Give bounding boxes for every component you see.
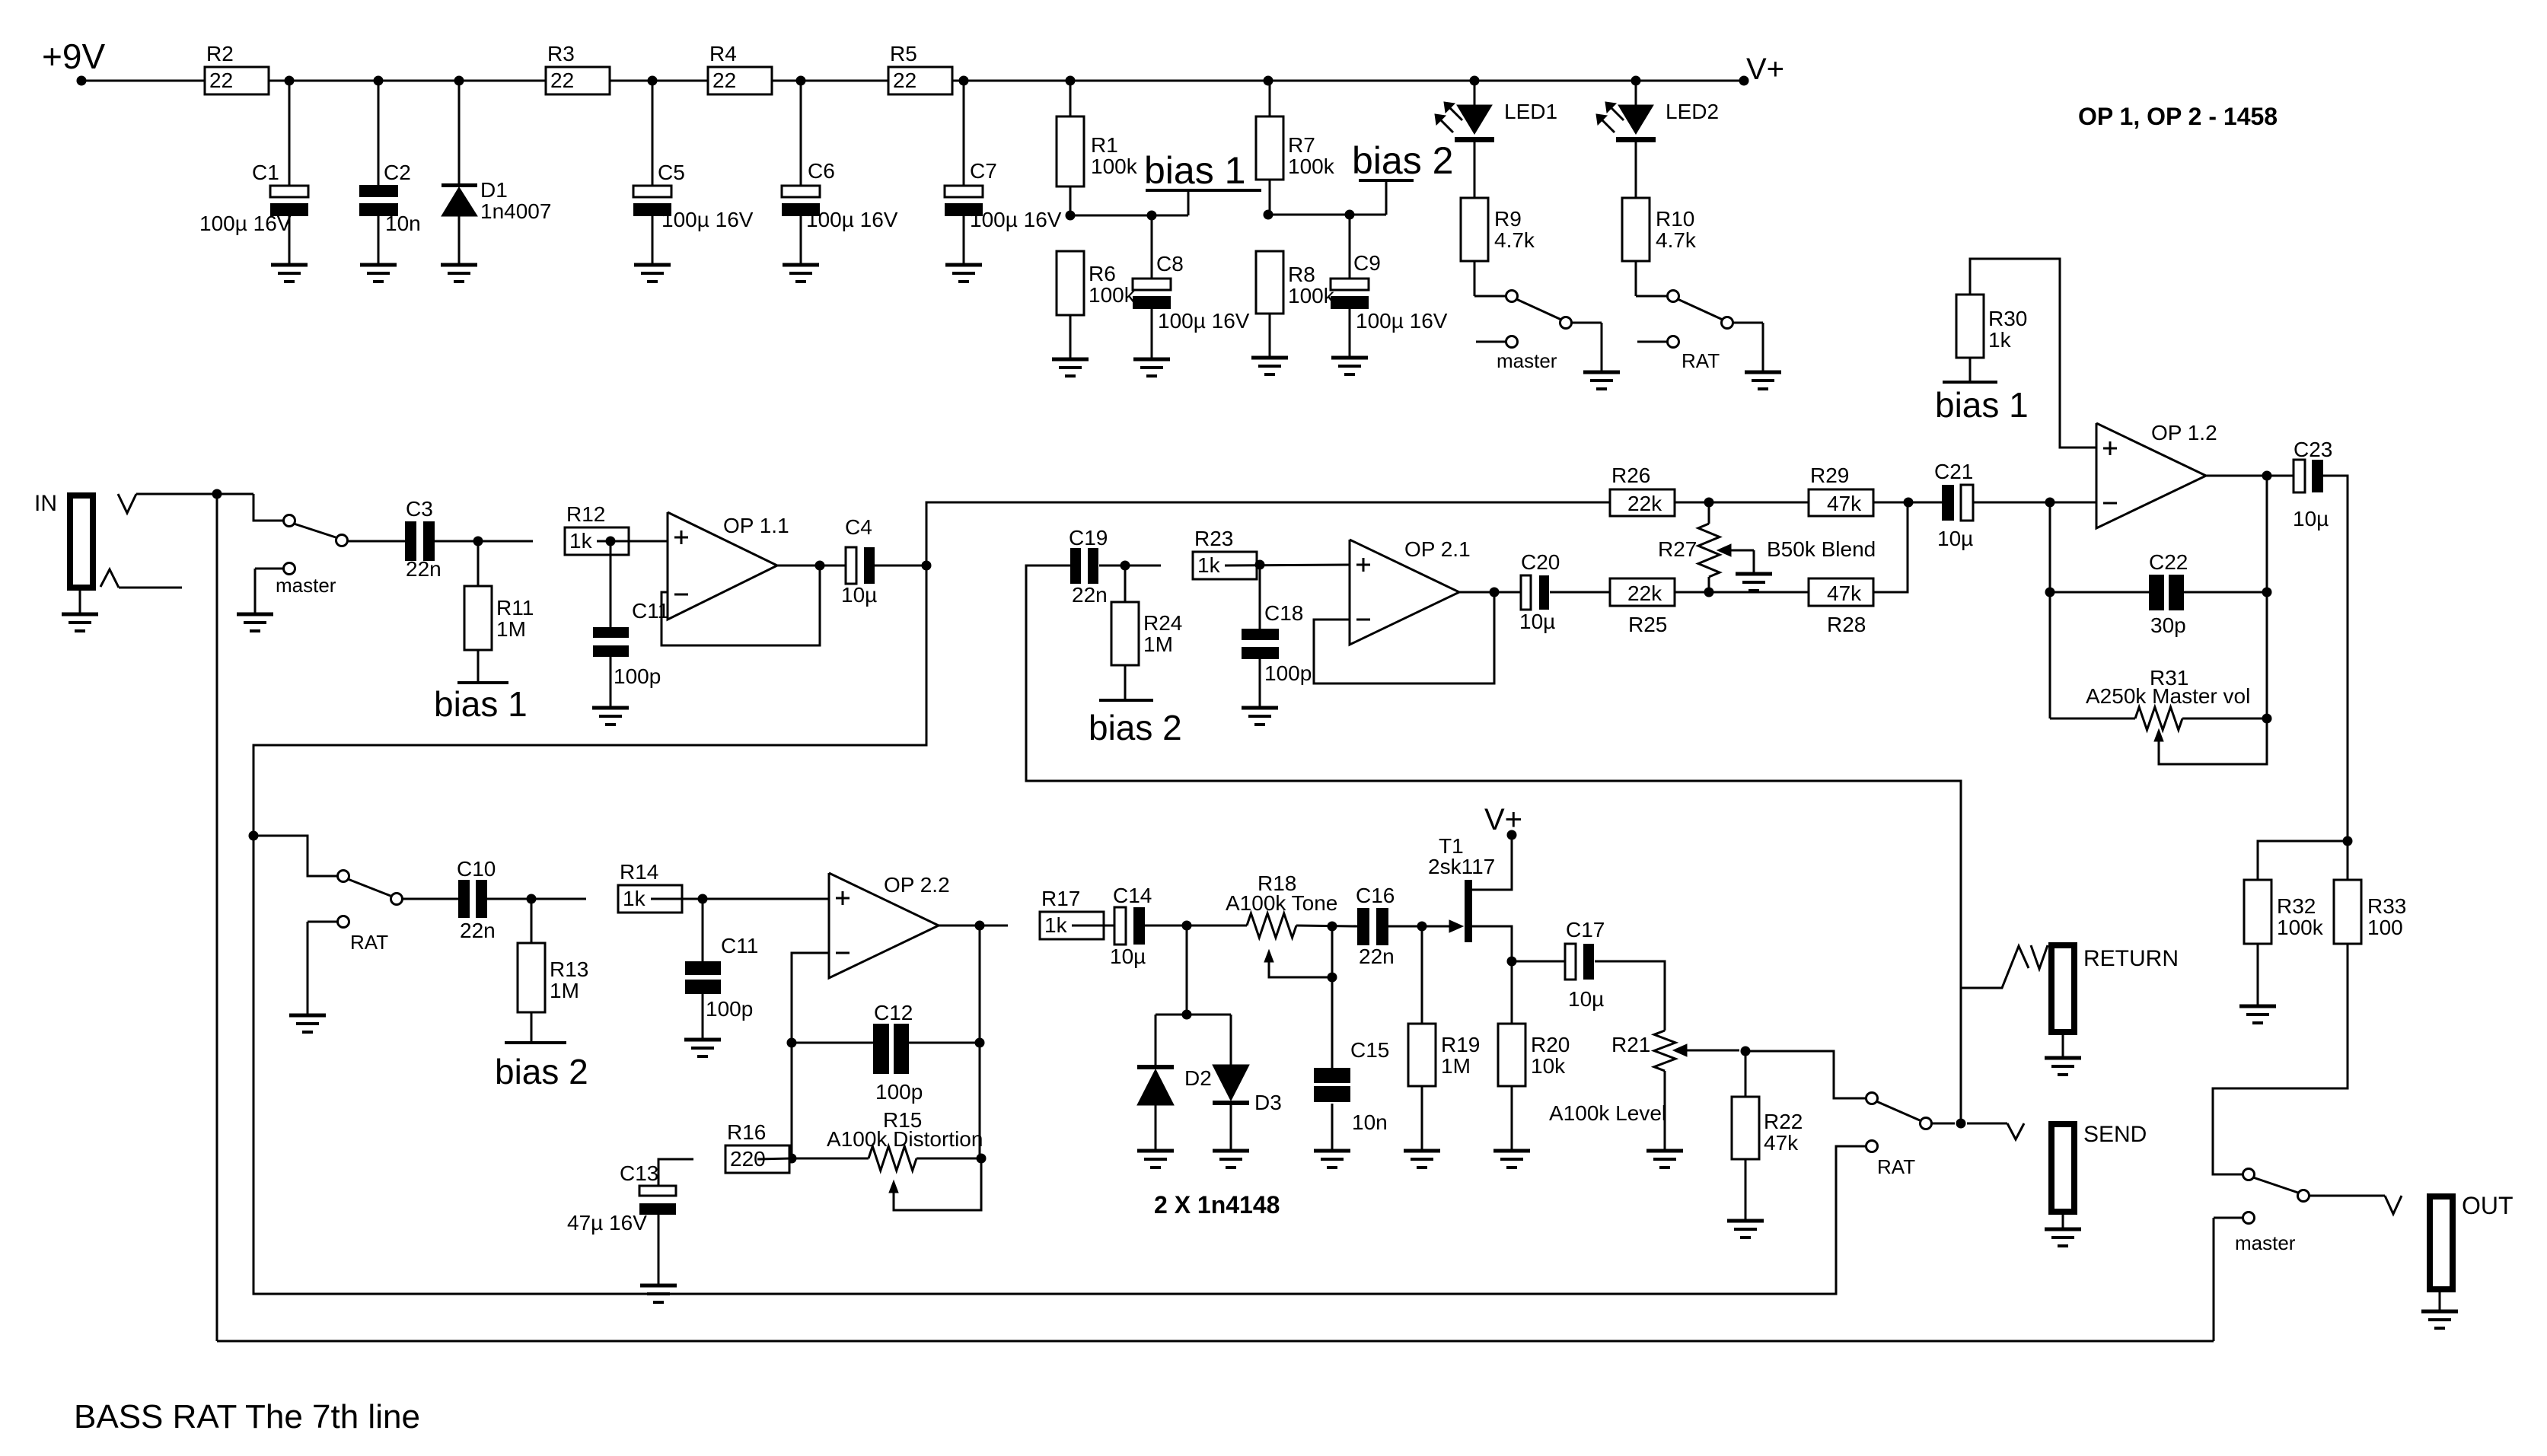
jack SEND tip contact xyxy=(2007,1123,2024,1139)
bias 2 terminal bar (R24) xyxy=(1099,699,1153,702)
wire bias1 top node xyxy=(1070,215,1188,217)
svg-text:bias 1: bias 1 xyxy=(1144,149,1245,192)
wire C17 to R21 xyxy=(1595,961,1665,1031)
svg-text:R27: R27 xyxy=(1658,537,1697,561)
node C17 junction xyxy=(1507,957,1517,967)
svg-text:R11: R11 xyxy=(496,596,534,620)
node junction C6 xyxy=(796,76,806,86)
node R31 right xyxy=(2262,714,2272,724)
capacitor C4 xyxy=(846,547,856,584)
resistor R33 xyxy=(2334,880,2361,944)
capacitor C6 xyxy=(800,81,802,186)
svg-text:22: 22 xyxy=(893,68,916,92)
node C11b junction xyxy=(698,894,708,904)
ground C9 xyxy=(1331,356,1368,360)
svg-text:R32: R32 xyxy=(2277,894,2316,918)
svg-text:R17: R17 xyxy=(1041,887,1080,910)
switch master pole xyxy=(284,515,295,527)
node junction LED2 xyxy=(1631,76,1641,86)
svg-text:100µ 16V: 100µ 16V xyxy=(1356,309,1448,333)
svg-text:D3: D3 xyxy=(1254,1091,1282,1114)
svg-text:R4: R4 xyxy=(709,42,737,65)
wire V+ rail xyxy=(81,80,1744,82)
switch master-LED pole xyxy=(1474,295,1506,298)
svg-text:C12: C12 xyxy=(874,1001,913,1024)
svg-text:100k: 100k xyxy=(1288,155,1335,178)
svg-text:22: 22 xyxy=(209,68,233,92)
node R18 right xyxy=(1328,922,1337,932)
svg-text:SEND: SEND xyxy=(2083,1122,2147,1147)
op-amp OP 1.2 xyxy=(2096,423,2206,528)
svg-text:A100k Level: A100k Level xyxy=(1549,1101,1666,1125)
svg-text:10µ: 10µ xyxy=(2293,507,2329,530)
svg-text:R30: R30 xyxy=(1988,307,2027,330)
diode D3 xyxy=(1230,1015,1232,1065)
svg-text:100µ 16V: 100µ 16V xyxy=(199,212,292,235)
svg-text:D1: D1 xyxy=(480,178,508,202)
svg-text:+9V: +9V xyxy=(42,37,105,76)
wiper R18 xyxy=(1264,950,1273,962)
capacitor C3 xyxy=(405,521,416,561)
diode D1 xyxy=(458,81,461,185)
svg-text:C16: C16 xyxy=(1356,884,1395,907)
node junction D1 xyxy=(454,76,464,86)
svg-text:OP 1, OP 2 - 1458: OP 1, OP 2 - 1458 xyxy=(2078,103,2278,130)
switch RAT-in pole xyxy=(338,871,349,882)
node C12 left xyxy=(787,1038,797,1048)
svg-text:C19: C19 xyxy=(1069,526,1108,550)
node C22 left xyxy=(2045,588,2055,597)
svg-text:BASS RAT The 7th line: BASS RAT The 7th line xyxy=(74,1398,420,1435)
wire output down rail xyxy=(979,926,981,1158)
ground C15 xyxy=(1314,1149,1350,1153)
svg-text:RETURN: RETURN xyxy=(2083,946,2179,971)
resistor R9 xyxy=(1474,142,1476,198)
capacitor C5 xyxy=(652,81,654,186)
wire C23 to R32/R33 xyxy=(2323,476,2348,880)
svg-text:R13: R13 xyxy=(550,957,588,981)
resistor R11 xyxy=(477,541,480,586)
wire to RAT input switch xyxy=(253,836,337,876)
wire IN signal down xyxy=(216,494,218,1341)
wire switch to ground xyxy=(1572,322,1602,324)
capacitor C13 xyxy=(639,1186,676,1196)
capacitor C21 xyxy=(1942,485,1954,521)
svg-text:OP 1.1: OP 1.1 xyxy=(723,514,789,537)
svg-text:R5: R5 xyxy=(890,42,917,65)
ground R20 xyxy=(1493,1149,1530,1153)
svg-text:1M: 1M xyxy=(1143,632,1173,656)
ground R6 xyxy=(1052,358,1089,362)
svg-text:4.7k: 4.7k xyxy=(1494,228,1535,252)
svg-text:R19: R19 xyxy=(1441,1033,1480,1056)
node R22 junction xyxy=(1741,1047,1751,1056)
wire arm to C3 xyxy=(348,540,405,543)
wire C20 to R25 xyxy=(1550,591,1610,594)
resistor R22 xyxy=(1745,1051,1747,1097)
svg-text:R28: R28 xyxy=(1827,613,1866,636)
potentiometer R31 A250k Master vol xyxy=(2050,718,2135,720)
node diode mid xyxy=(1182,1010,1192,1020)
wire C19 to R23 xyxy=(1099,565,1161,567)
wire T1 drain to V+ xyxy=(1472,840,1512,890)
svg-text:1k: 1k xyxy=(1988,328,2012,352)
resistor R13 xyxy=(531,899,533,943)
node junction R1 xyxy=(1066,76,1076,86)
wire output rail down xyxy=(2266,476,2268,718)
capacitor C7 xyxy=(963,81,965,186)
svg-text:100p: 100p xyxy=(706,997,753,1021)
wire to master switch xyxy=(253,494,283,521)
node R1-R6 junction xyxy=(1066,211,1076,221)
ground LED1 switch xyxy=(1583,371,1620,374)
svg-text:OP 2.1: OP 2.1 xyxy=(1404,537,1471,561)
op-amp OP 2.2 xyxy=(829,873,939,978)
svg-text:V+: V+ xyxy=(1484,803,1522,836)
wire master throw to bottom rail xyxy=(2213,1218,2215,1341)
svg-text:OUT: OUT xyxy=(2462,1192,2514,1219)
svg-text:D2: D2 xyxy=(1184,1066,1212,1090)
svg-text:C23: C23 xyxy=(2294,438,2332,461)
node C11 junction xyxy=(606,537,616,546)
wire R17 to C14 xyxy=(1072,925,1114,927)
svg-text:R3: R3 xyxy=(547,42,575,65)
wire C22 row right xyxy=(2184,591,2267,594)
svg-text:100µ 16V: 100µ 16V xyxy=(806,208,898,231)
svg-text:22n: 22n xyxy=(460,919,496,942)
svg-text:R7: R7 xyxy=(1288,133,1315,157)
node +9V terminal xyxy=(77,76,87,86)
wire OP1.2 output xyxy=(2206,475,2294,477)
node C4 output xyxy=(922,561,932,571)
ground D1 xyxy=(441,263,477,267)
svg-text:A100k Distortion: A100k Distortion xyxy=(827,1127,983,1151)
potentiometer R27 B50k Blend xyxy=(1708,502,1710,524)
svg-text:2 X 1n4148: 2 X 1n4148 xyxy=(1154,1191,1280,1219)
ground C6 xyxy=(783,263,819,267)
node R15 right xyxy=(977,1154,987,1164)
jack RETURN xyxy=(2051,945,2074,1032)
wire bias2 top node xyxy=(1268,214,1386,216)
node OP1.2 output xyxy=(2262,471,2272,481)
switch output throw2 (master) xyxy=(2243,1212,2255,1224)
bias 1 terminal bar (R11) xyxy=(457,681,508,684)
node C12 right xyxy=(975,1038,985,1048)
svg-text:100k: 100k xyxy=(2277,916,2324,939)
jack IN tip contact xyxy=(118,494,136,513)
switch master-LED throw2 xyxy=(1506,336,1518,348)
potentiometer R21 A100k Level xyxy=(1654,1031,1675,1071)
svg-text:100µ 16V: 100µ 16V xyxy=(970,208,1062,231)
ground C5 xyxy=(634,263,671,267)
svg-text:C8: C8 xyxy=(1156,252,1184,276)
wire R16 right xyxy=(757,1158,792,1159)
ground RETURN jack xyxy=(2045,1056,2081,1060)
svg-text:1k: 1k xyxy=(569,529,593,553)
ground C7 xyxy=(945,263,982,267)
node C9 junction xyxy=(1345,210,1355,220)
ground C8 xyxy=(1133,358,1170,362)
svg-text:OP 2.2: OP 2.2 xyxy=(884,873,950,897)
resistor R17 xyxy=(1040,912,1104,939)
svg-text:10µ: 10µ xyxy=(1937,527,1973,550)
svg-text:100k: 100k xyxy=(1089,283,1136,307)
svg-text:1M: 1M xyxy=(496,617,526,641)
switch RAT-in arm xyxy=(348,879,390,896)
node diode junction xyxy=(1182,921,1192,931)
svg-text:22n: 22n xyxy=(406,557,442,581)
capacitor C22 xyxy=(2149,575,2164,610)
LED1 xyxy=(1474,81,1476,105)
svg-text:R21: R21 xyxy=(1611,1033,1650,1056)
svg-text:22n: 22n xyxy=(1359,945,1395,968)
svg-text:master: master xyxy=(1497,349,1557,372)
svg-text:R1: R1 xyxy=(1091,133,1118,157)
resistor R2 xyxy=(205,67,269,94)
node junction C2 xyxy=(374,76,384,86)
svg-text:10n: 10n xyxy=(1352,1110,1388,1134)
wire bottom outer rail xyxy=(217,1340,2214,1343)
jack RETURN switch contact xyxy=(1961,946,2029,988)
svg-text:100µ 16V: 100µ 16V xyxy=(661,208,754,231)
node junction LED1 xyxy=(1470,76,1480,86)
node C8 junction xyxy=(1147,211,1157,221)
resistor R8 xyxy=(1256,251,1283,314)
capacitor C14 xyxy=(1114,907,1126,945)
resistor R3 xyxy=(546,67,610,94)
svg-text:C22: C22 xyxy=(2149,550,2188,574)
op-amp OP 2.1 xyxy=(1350,540,1459,645)
node C22 right xyxy=(2262,588,2272,597)
node junction C1 xyxy=(285,76,295,86)
svg-text:1k: 1k xyxy=(1044,913,1068,937)
ground R19 xyxy=(1404,1149,1440,1153)
ground IN jack xyxy=(62,613,98,616)
ground C2 xyxy=(360,263,397,267)
switch RAT-LED pole xyxy=(1636,295,1667,298)
svg-text:10n: 10n xyxy=(385,212,421,235)
svg-text:R26: R26 xyxy=(1611,464,1650,487)
svg-text:47µ 16V: 47µ 16V xyxy=(567,1211,647,1235)
ground R22 xyxy=(1727,1219,1764,1223)
resistor R23 xyxy=(1193,552,1257,579)
svg-text:A100k Tone: A100k Tone xyxy=(1226,891,1337,915)
svg-text:C2: C2 xyxy=(384,161,411,184)
capacitor C2 xyxy=(378,81,380,185)
wire OP1.1 output xyxy=(777,565,846,567)
wiper R31 xyxy=(2154,729,2163,741)
node R13 junction xyxy=(527,894,537,904)
ground RAT-in throw xyxy=(289,1014,326,1018)
resistor R6 xyxy=(1057,251,1084,315)
ground R32 xyxy=(2239,1005,2276,1008)
capacitor C16 xyxy=(1357,908,1369,945)
node R11 junction xyxy=(473,537,483,546)
svg-text:IN: IN xyxy=(34,491,57,516)
ground R21 xyxy=(1646,1149,1683,1153)
node IN signal xyxy=(212,489,222,499)
svg-text:LED2: LED2 xyxy=(1666,100,1719,123)
svg-text:master: master xyxy=(276,574,336,597)
wire OP2.2 minus down xyxy=(792,953,829,1158)
svg-text:10µ: 10µ xyxy=(1519,610,1555,633)
capacitor C11 (input filter) xyxy=(610,541,612,627)
capacitor C18 xyxy=(1259,565,1261,629)
svg-text:C11: C11 xyxy=(721,934,758,957)
wire to SEND node xyxy=(1932,1123,1955,1125)
svg-text:C5: C5 xyxy=(658,161,685,184)
svg-text:R22: R22 xyxy=(1764,1110,1803,1133)
bias 2 terminal bar (R13) xyxy=(505,1041,566,1044)
switch RAT-in throw2 xyxy=(338,916,349,928)
ground OUT jack xyxy=(2421,1310,2458,1314)
svg-text:B50k Blend: B50k Blend xyxy=(1767,537,1876,561)
svg-text:22n: 22n xyxy=(1072,583,1108,607)
svg-text:R16: R16 xyxy=(727,1120,766,1144)
wire R28 up to C21 node xyxy=(1873,502,1908,592)
svg-text:C21: C21 xyxy=(1934,460,1973,483)
wire R25 to R27 node xyxy=(1675,591,1809,594)
resistor R5 xyxy=(888,67,952,94)
svg-text:47k: 47k xyxy=(1827,492,1862,515)
svg-text:R29: R29 xyxy=(1810,464,1849,487)
wire OP2.1 output xyxy=(1459,591,1521,594)
ground C13 xyxy=(640,1284,677,1288)
wire C3 to R12 xyxy=(435,540,533,543)
svg-text:22k: 22k xyxy=(1627,581,1662,605)
svg-text:10µ: 10µ xyxy=(1568,987,1604,1011)
svg-text:100p: 100p xyxy=(875,1080,923,1104)
bias 1 terminal bar (R30) xyxy=(1943,381,1997,384)
svg-text:10µ: 10µ xyxy=(841,583,877,607)
wire C4 node up to blend feed xyxy=(926,502,1610,566)
resistor R29 xyxy=(1809,489,1873,516)
ground C18 xyxy=(1242,706,1278,710)
wire arm to C10 xyxy=(403,898,458,900)
jack OUT tip contact xyxy=(2385,1196,2402,1214)
svg-text:master: master xyxy=(2235,1231,2296,1254)
svg-text:C18: C18 xyxy=(1264,601,1303,625)
svg-text:47k: 47k xyxy=(1764,1131,1799,1155)
svg-text:4.7k: 4.7k xyxy=(1656,228,1697,252)
ground C1 xyxy=(271,263,308,267)
wire R26 to R27 node xyxy=(1675,502,1809,504)
wire to diodes xyxy=(1186,926,1188,1015)
svg-text:R14: R14 xyxy=(620,860,658,884)
node R16 junction xyxy=(787,1154,797,1164)
svg-text:100: 100 xyxy=(2367,916,2403,939)
jack RETURN tip contact xyxy=(2031,945,2048,969)
node C18 junction xyxy=(1255,560,1265,570)
capacitor C8 xyxy=(1151,215,1153,279)
jack IN switch contact xyxy=(100,569,119,588)
svg-text:C17: C17 xyxy=(1566,918,1605,941)
ground D3 xyxy=(1213,1149,1249,1153)
svg-text:LED1: LED1 xyxy=(1504,100,1557,123)
wire to SEND jack xyxy=(1967,1123,2007,1125)
node OP2.2 output xyxy=(975,921,985,931)
switch output pole xyxy=(2243,1169,2255,1180)
node junction C5 xyxy=(648,76,658,86)
diode D2 xyxy=(1155,1015,1157,1065)
svg-text:R23: R23 xyxy=(1194,527,1233,550)
wiper R21 xyxy=(1673,1044,1687,1056)
svg-text:R24: R24 xyxy=(1143,611,1182,635)
resistor R20 xyxy=(1498,1024,1525,1086)
op-amp OP 1.1 xyxy=(668,512,777,620)
capacitor C23 xyxy=(2294,460,2305,492)
svg-text:47k: 47k xyxy=(1827,581,1862,605)
wire C10 to R14 xyxy=(487,898,586,900)
capacitor C9 xyxy=(1349,215,1351,279)
capacitor C17 xyxy=(1512,961,1565,963)
svg-text:C13: C13 xyxy=(620,1161,658,1185)
ground SEND jack xyxy=(2045,1228,2081,1231)
wire wiper node to RAT switch xyxy=(1745,1051,1866,1098)
svg-text:22: 22 xyxy=(712,68,736,92)
resistor R4 xyxy=(708,67,772,94)
svg-text:10µ: 10µ xyxy=(1110,945,1146,968)
jack OUT xyxy=(2430,1196,2453,1289)
svg-text:R8: R8 xyxy=(1288,263,1315,286)
svg-text:R12: R12 xyxy=(566,502,605,526)
svg-text:R33: R33 xyxy=(2367,894,2406,918)
wire C19 left loop from RETURN xyxy=(1026,566,1961,1123)
resistor R26 xyxy=(1610,489,1675,516)
svg-text:bias 1: bias 1 xyxy=(434,684,528,724)
LED2 xyxy=(1635,81,1637,105)
svg-text:10k: 10k xyxy=(1531,1054,1566,1078)
potentiometer R15 A100k Distortion xyxy=(792,1158,869,1160)
svg-text:C7: C7 xyxy=(970,159,997,183)
svg-text:1k: 1k xyxy=(1197,553,1221,577)
ground D2 xyxy=(1137,1149,1174,1153)
node OP1.2 minus branch xyxy=(2045,498,2055,508)
svg-text:R10: R10 xyxy=(1656,207,1694,231)
resistor R7 xyxy=(1269,81,1271,116)
resistor R19 xyxy=(1421,926,1423,1024)
node RAT feed xyxy=(249,831,259,841)
jack SEND xyxy=(2051,1124,2074,1212)
wire C4 out xyxy=(875,565,926,567)
svg-text:C10: C10 xyxy=(457,857,496,881)
svg-text:C14: C14 xyxy=(1113,884,1152,907)
node junction C7 xyxy=(959,76,969,86)
wire R14 to OP2.2 xyxy=(651,898,829,900)
wire to OUT jack xyxy=(2310,1195,2385,1197)
capacitor C10 xyxy=(458,880,470,918)
svg-text:R9: R9 xyxy=(1494,207,1522,231)
node OP2.1 output xyxy=(1490,588,1500,597)
switch RAT-LED arm xyxy=(1678,299,1723,320)
potentiometer R18 A100k Tone xyxy=(1247,913,1296,938)
svg-text:100k: 100k xyxy=(1091,155,1138,178)
wire C22 row left xyxy=(2050,591,2149,594)
wiper R15 xyxy=(889,1180,898,1193)
svg-text:22k: 22k xyxy=(1627,492,1662,515)
wire C21 to OP1.2 minus xyxy=(1973,502,2096,504)
resistor R30 xyxy=(1970,259,2096,448)
svg-text:1k: 1k xyxy=(623,887,646,910)
wire R16 left to C13 xyxy=(658,1159,693,1186)
svg-text:A250k Master vol: A250k Master vol xyxy=(2086,684,2250,708)
wire OP1.1 feedback xyxy=(661,566,820,645)
wire OP2.2 output xyxy=(939,925,1008,927)
svg-text:30p: 30p xyxy=(2150,613,2186,637)
ground master throw xyxy=(237,613,273,616)
svg-text:C9: C9 xyxy=(1353,251,1381,275)
svg-text:1M: 1M xyxy=(550,979,579,1002)
